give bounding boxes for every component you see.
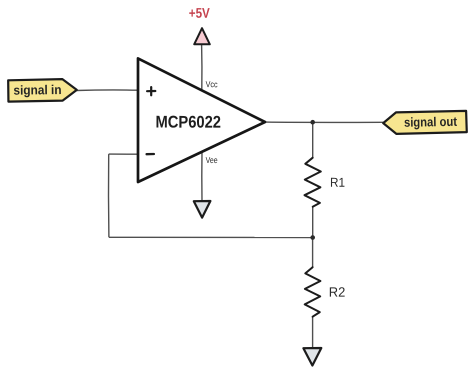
op-amp U1 body — [138, 58, 265, 182]
op-amp - input marker — [147, 153, 154, 155]
wire: signal in to op-amp + input — [77, 89, 139, 92]
wire: R1 bottom lead to node — [312, 207, 314, 238]
op-amp + input marker — [147, 87, 155, 95]
wire: op-amp output to signal out — [265, 121, 383, 123]
wire: feedback stub from op-amp - input — [109, 153, 138, 155]
svg-text:signal out: signal out — [404, 114, 458, 130]
ground symbol below R2 — [303, 348, 321, 366]
wire: feedback horizontal segment to R1/R2 node — [109, 236, 313, 238]
svg-text:Vee: Vee — [206, 155, 218, 165]
wire: op-amp Vee pin to ground — [201, 152, 203, 202]
wire: feedback vertical segment — [107, 154, 109, 237]
svg-text:R2: R2 — [329, 285, 346, 300]
wire: output node to R1 top lead — [312, 122, 314, 158]
svg-text:signal in: signal in — [13, 82, 61, 98]
wire: node to R2 top lead — [312, 238, 314, 268]
wire: +5V symbol to op-amp Vcc pin — [201, 44, 203, 89]
resistor R1 — [305, 158, 321, 207]
signal in tag — [8, 79, 77, 102]
wire: R2 bottom lead to ground — [312, 317, 314, 349]
ground symbol below op-amp — [194, 201, 211, 218]
signal out tag — [383, 111, 467, 134]
+5V supply symbol — [194, 28, 210, 44]
svg-text:Vcc: Vcc — [206, 79, 219, 89]
svg-text:MCP6022: MCP6022 — [155, 113, 221, 132]
svg-text:+5V: +5V — [189, 5, 211, 21]
resistor R2 — [305, 267, 321, 317]
svg-text:R1: R1 — [330, 175, 345, 190]
node: feedback junction — [310, 235, 315, 240]
node: output junction — [310, 120, 315, 125]
